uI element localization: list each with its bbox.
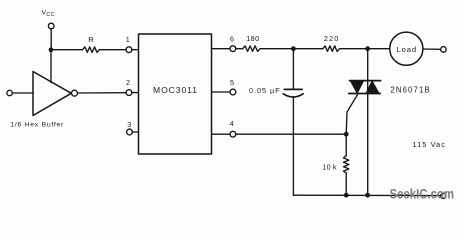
wire pin5 stub from IC [212, 91, 231, 93]
triac bottom bar [349, 93, 380, 95]
resistor 220 [323, 46, 342, 52]
wire load to right terminal [423, 48, 441, 50]
pin 6 terminal [230, 46, 236, 52]
wire 10k to bottom rail [345, 173, 347, 195]
load [390, 32, 423, 65]
VCC terminal [48, 23, 54, 29]
node junction 10k bottom [344, 193, 349, 198]
svg-text:6: 6 [230, 35, 234, 44]
node junction triac bottom [365, 193, 370, 198]
wire gate lead [346, 94, 358, 134]
wire node down into buffer [50, 50, 52, 83]
svg-text:220: 220 [324, 34, 339, 43]
svg-text:R: R [88, 35, 94, 44]
pin 5 terminal [230, 89, 236, 95]
svg-text:5: 5 [230, 78, 234, 87]
svg-text:2N6071B: 2N6071B [390, 85, 429, 94]
wire node B down to capacitor [292, 49, 294, 89]
triac top bar [350, 80, 381, 82]
svg-text:CC: CC [46, 12, 55, 18]
pin 2 terminal [126, 90, 132, 96]
wire node to resistor R [51, 49, 83, 51]
svg-text:MOC3011: MOC3011 [153, 85, 197, 95]
wire VCC down to node [50, 29, 52, 50]
wire R to pin1 [99, 49, 126, 51]
wire node C through triac down to bottom rail [367, 49, 369, 196]
svg-text:1: 1 [126, 35, 130, 44]
node D junction (gate) [344, 132, 349, 137]
svg-text:115 Vac: 115 Vac [413, 140, 446, 149]
wire capacitor down to bottom rail [292, 97, 294, 196]
capacitor C1 0.05uF top plate [284, 88, 302, 90]
IC U1 MOC3011 body [139, 34, 212, 154]
svg-text:0.05 µF: 0.05 µF [249, 86, 280, 95]
buffer inversion bubble [72, 90, 78, 96]
buffer U2 (1/6 hex buffer) triangle [33, 72, 71, 116]
bottom rail wire [293, 194, 440, 196]
resistor 10k (vertical) [343, 156, 349, 173]
wire pin4 stub from IC [212, 133, 231, 135]
wire pin6 to 180 [236, 48, 243, 50]
node junction A [49, 47, 54, 52]
triac left triangle [350, 81, 364, 94]
svg-text:SeekIC.com: SeekIC.com [390, 187, 455, 203]
triac right triangle [366, 81, 379, 94]
resistor 180 [243, 46, 261, 52]
resistor R [83, 47, 100, 53]
svg-text:1/6 Hex Buffer: 1/6 Hex Buffer [10, 122, 64, 129]
wire 220 to node C [341, 48, 389, 50]
svg-text:4: 4 [230, 119, 234, 128]
wire node D to 10k [345, 134, 347, 156]
svg-text:3: 3 [127, 120, 131, 129]
wire buffer output to pin2 [78, 92, 127, 94]
pin 3 terminal [127, 129, 133, 135]
pin 4 terminal [230, 131, 236, 137]
capacitor C1 curved plate [283, 94, 303, 97]
wire 180 to node B [260, 48, 323, 50]
wire pin2 stub to IC [132, 92, 139, 94]
triac Q1 2N6071B [349, 49, 381, 196]
wire pin6 stub from IC [212, 48, 231, 50]
svg-text:2: 2 [126, 78, 130, 87]
wire pin4 to gate node [236, 133, 346, 135]
terminal right bottom [441, 193, 446, 198]
pin 1 terminal [126, 47, 132, 53]
input terminal [7, 90, 12, 95]
node B junction [291, 46, 296, 51]
wire pin1 stub to IC [132, 49, 139, 51]
node C junction [365, 46, 370, 51]
terminal right top [441, 47, 447, 53]
svg-text:180: 180 [246, 34, 259, 43]
svg-text:Load: Load [397, 45, 417, 54]
svg-text:10 k: 10 k [323, 162, 337, 171]
VCC label [42, 10, 56, 19]
wire pin3 stub to IC [132, 131, 138, 133]
wire input to buffer [12, 92, 33, 94]
